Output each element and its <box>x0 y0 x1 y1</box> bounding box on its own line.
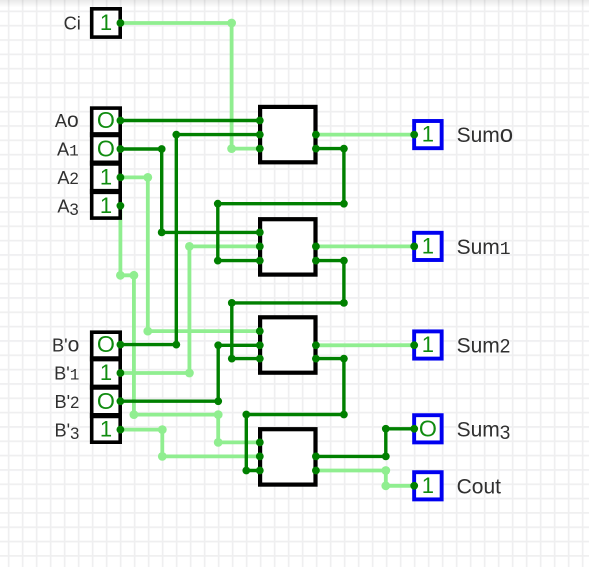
wire B'0 to FA1 input B (value 0) <box>120 135 259 345</box>
pin U2 input 2 <box>256 243 264 251</box>
output Cout box <box>414 472 442 499</box>
input A1 box <box>90 135 122 163</box>
wire Ci to FA1 Cin (value 1) <box>120 23 259 149</box>
pin Sum1 input <box>410 243 418 251</box>
wire FA1 carry to FA2 Cin (value 0) <box>218 149 344 261</box>
full adder U4 box <box>260 429 315 484</box>
node Ci wire corner <box>227 19 236 28</box>
svg-text:Ao: Ao <box>55 109 79 132</box>
svg-text:B'o: B'o <box>52 333 79 356</box>
pin U3 sum output <box>312 341 320 349</box>
wire B'3 to FA4 input B (value 1) <box>120 430 259 457</box>
output Sum1 box <box>414 233 442 260</box>
wire A0 to FA1 input A (value 0) <box>120 119 259 122</box>
pin Sum0 input <box>410 131 418 139</box>
pin B'0 output <box>117 341 125 349</box>
svg-text:Ci: Ci <box>64 14 81 34</box>
node A1 wire corner lower <box>158 229 166 237</box>
svg-text:1: 1 <box>422 473 434 498</box>
pin U1 input 1 <box>256 117 264 125</box>
node FA1 carry corner 3 <box>214 200 222 208</box>
svg-text:B'1: B'1 <box>54 364 79 385</box>
svg-text:1: 1 <box>100 193 112 218</box>
node FA3 carry corner 3 <box>242 411 250 419</box>
pin U3 input 2 <box>256 341 264 349</box>
svg-text:1: 1 <box>100 417 112 442</box>
wire FA3 carry to FA4 Cin (value 0) <box>246 359 344 471</box>
pin A3 output <box>117 202 125 210</box>
node B'1 wire corner upper <box>185 242 194 251</box>
pin Sum2 input <box>410 341 418 349</box>
svg-text:O: O <box>97 331 115 357</box>
input B'1 box <box>90 359 122 387</box>
node FA2 carry corner 1 <box>340 257 348 265</box>
svg-text:O: O <box>97 388 115 414</box>
node FA3 carry corner 2 <box>340 411 348 419</box>
wire FA4 carry to Cout (value 1) <box>316 471 414 486</box>
input stack A outer border and dividers <box>90 108 122 218</box>
full adder U1 box <box>260 107 315 162</box>
svg-text:1: 1 <box>100 360 112 385</box>
full adder U2 box <box>260 219 315 274</box>
pin U4 carry output <box>312 467 320 475</box>
pin A2 output <box>117 174 125 182</box>
wire A2 to FA3 input A (value 1) <box>120 177 259 331</box>
wire FA4 sum to Sum3 (value 0) <box>316 429 414 457</box>
pin U1 input 2 <box>256 131 264 139</box>
node Cout wire corner 1 <box>381 466 390 475</box>
node FA3 carry corner 4 <box>242 467 250 475</box>
node B'1 wire corner <box>185 369 194 378</box>
pin U4 input 3 <box>256 467 264 475</box>
node B'0 wire corner upper <box>172 131 180 139</box>
pin U2 input 3 <box>256 257 264 265</box>
node A3 wire corner 2 <box>130 271 139 280</box>
node B'3 wire corner <box>158 425 167 434</box>
wire FA2 carry to FA3 Cin (value 0) <box>232 261 344 359</box>
pin U3 input 3 <box>256 355 264 363</box>
wire A3 to FA4 input A (value 1) <box>120 206 259 443</box>
node B'3 wire corner lower <box>158 452 167 461</box>
node A2 wire corner lower <box>143 327 152 336</box>
node A2 wire corner <box>143 173 152 182</box>
pin B'3 output <box>117 426 125 434</box>
pin A1 output <box>117 145 125 153</box>
input A3 box <box>90 192 122 220</box>
pin B'1 output <box>117 369 125 377</box>
wire FA1 sum to Sum0 (value 1) <box>316 133 414 137</box>
svg-text:1: 1 <box>422 332 434 357</box>
pin U4 sum output <box>312 453 320 461</box>
node FA2 carry corner 3 <box>228 299 236 307</box>
node FA1 carry corner 2 <box>340 200 348 208</box>
pin Ci output <box>117 19 125 27</box>
input B'0 box <box>90 330 122 358</box>
node A1 wire corner <box>158 145 166 153</box>
pin Cout input <box>410 482 418 490</box>
node FA3 carry corner 1 <box>340 355 348 363</box>
pin U1 sum output <box>312 131 320 139</box>
svg-text:1: 1 <box>100 164 112 189</box>
input A0 box <box>90 106 122 134</box>
svg-text:Sum3: Sum3 <box>457 418 511 444</box>
input Ci box <box>92 9 121 37</box>
output Sum2 box <box>414 331 442 358</box>
output Sum3 box <box>414 415 442 442</box>
svg-text:Sum2: Sum2 <box>457 334 511 357</box>
node A3 wire corner 4 <box>214 410 223 419</box>
node B'2 wire corner upper <box>214 341 222 349</box>
input B'3 box <box>90 415 122 443</box>
svg-text:Sumo: Sumo <box>457 121 514 148</box>
pin U2 input 1 <box>256 229 264 237</box>
svg-text:O: O <box>97 136 115 162</box>
node Ci wire corner lower <box>227 144 236 153</box>
wire A1 to FA2 input A (value 0) <box>120 149 259 232</box>
pin U1 input 3 <box>256 145 264 153</box>
svg-text:1: 1 <box>422 122 434 147</box>
node A3 wire corner 3 <box>130 410 139 419</box>
wire B'1 to FA2 input B (value 1) <box>120 246 259 373</box>
node Sum3 wire corner 1 <box>382 453 390 461</box>
wire B'2 to FA3 input B (value 0) <box>120 345 259 401</box>
svg-text:Cout: Cout <box>457 475 502 498</box>
svg-text:O: O <box>419 415 437 441</box>
node FA1 carry corner 1 <box>340 145 348 153</box>
input B'2 box <box>90 387 122 415</box>
node FA2 carry corner 4 <box>228 355 236 363</box>
node B'0 wire corner <box>172 341 180 349</box>
node Cout wire corner 2 <box>381 481 390 490</box>
svg-text:O: O <box>97 107 115 133</box>
output Sum0 box <box>414 121 442 148</box>
node A3 wire corner 1 <box>116 271 125 280</box>
pin U2 sum output <box>312 243 320 251</box>
full adder U3 box <box>260 317 315 372</box>
pin U3 carry output <box>312 355 320 363</box>
input stack B outer border and dividers <box>90 332 122 442</box>
node FA2 carry corner 2 <box>340 299 348 307</box>
node B'2 wire corner <box>214 397 222 405</box>
svg-text:B'2: B'2 <box>55 392 80 412</box>
node Sum3 wire corner 2 <box>382 425 390 433</box>
pin A0 output <box>117 117 125 125</box>
pin U2 carry output <box>312 257 320 265</box>
svg-text:1: 1 <box>422 233 434 258</box>
svg-text:A2: A2 <box>57 168 78 188</box>
pin B'2 output <box>117 397 125 405</box>
pin U4 input 1 <box>256 439 264 447</box>
svg-text:A1: A1 <box>57 140 79 161</box>
node FA1 carry corner 4 <box>214 257 222 265</box>
pin U1 carry output <box>312 145 320 153</box>
svg-text:1: 1 <box>100 10 112 35</box>
pin U4 input 2 <box>256 453 264 461</box>
input A2 box <box>90 163 122 191</box>
wire FA2 sum to Sum1 (value 1) <box>316 244 414 248</box>
pin U3 input 1 <box>256 327 264 335</box>
wire FA3 sum to Sum2 (value 1) <box>316 343 414 347</box>
svg-text:Sum1: Sum1 <box>457 236 511 260</box>
pin Sum3 input <box>410 425 418 433</box>
node A3 wire corner 5 <box>214 438 223 447</box>
